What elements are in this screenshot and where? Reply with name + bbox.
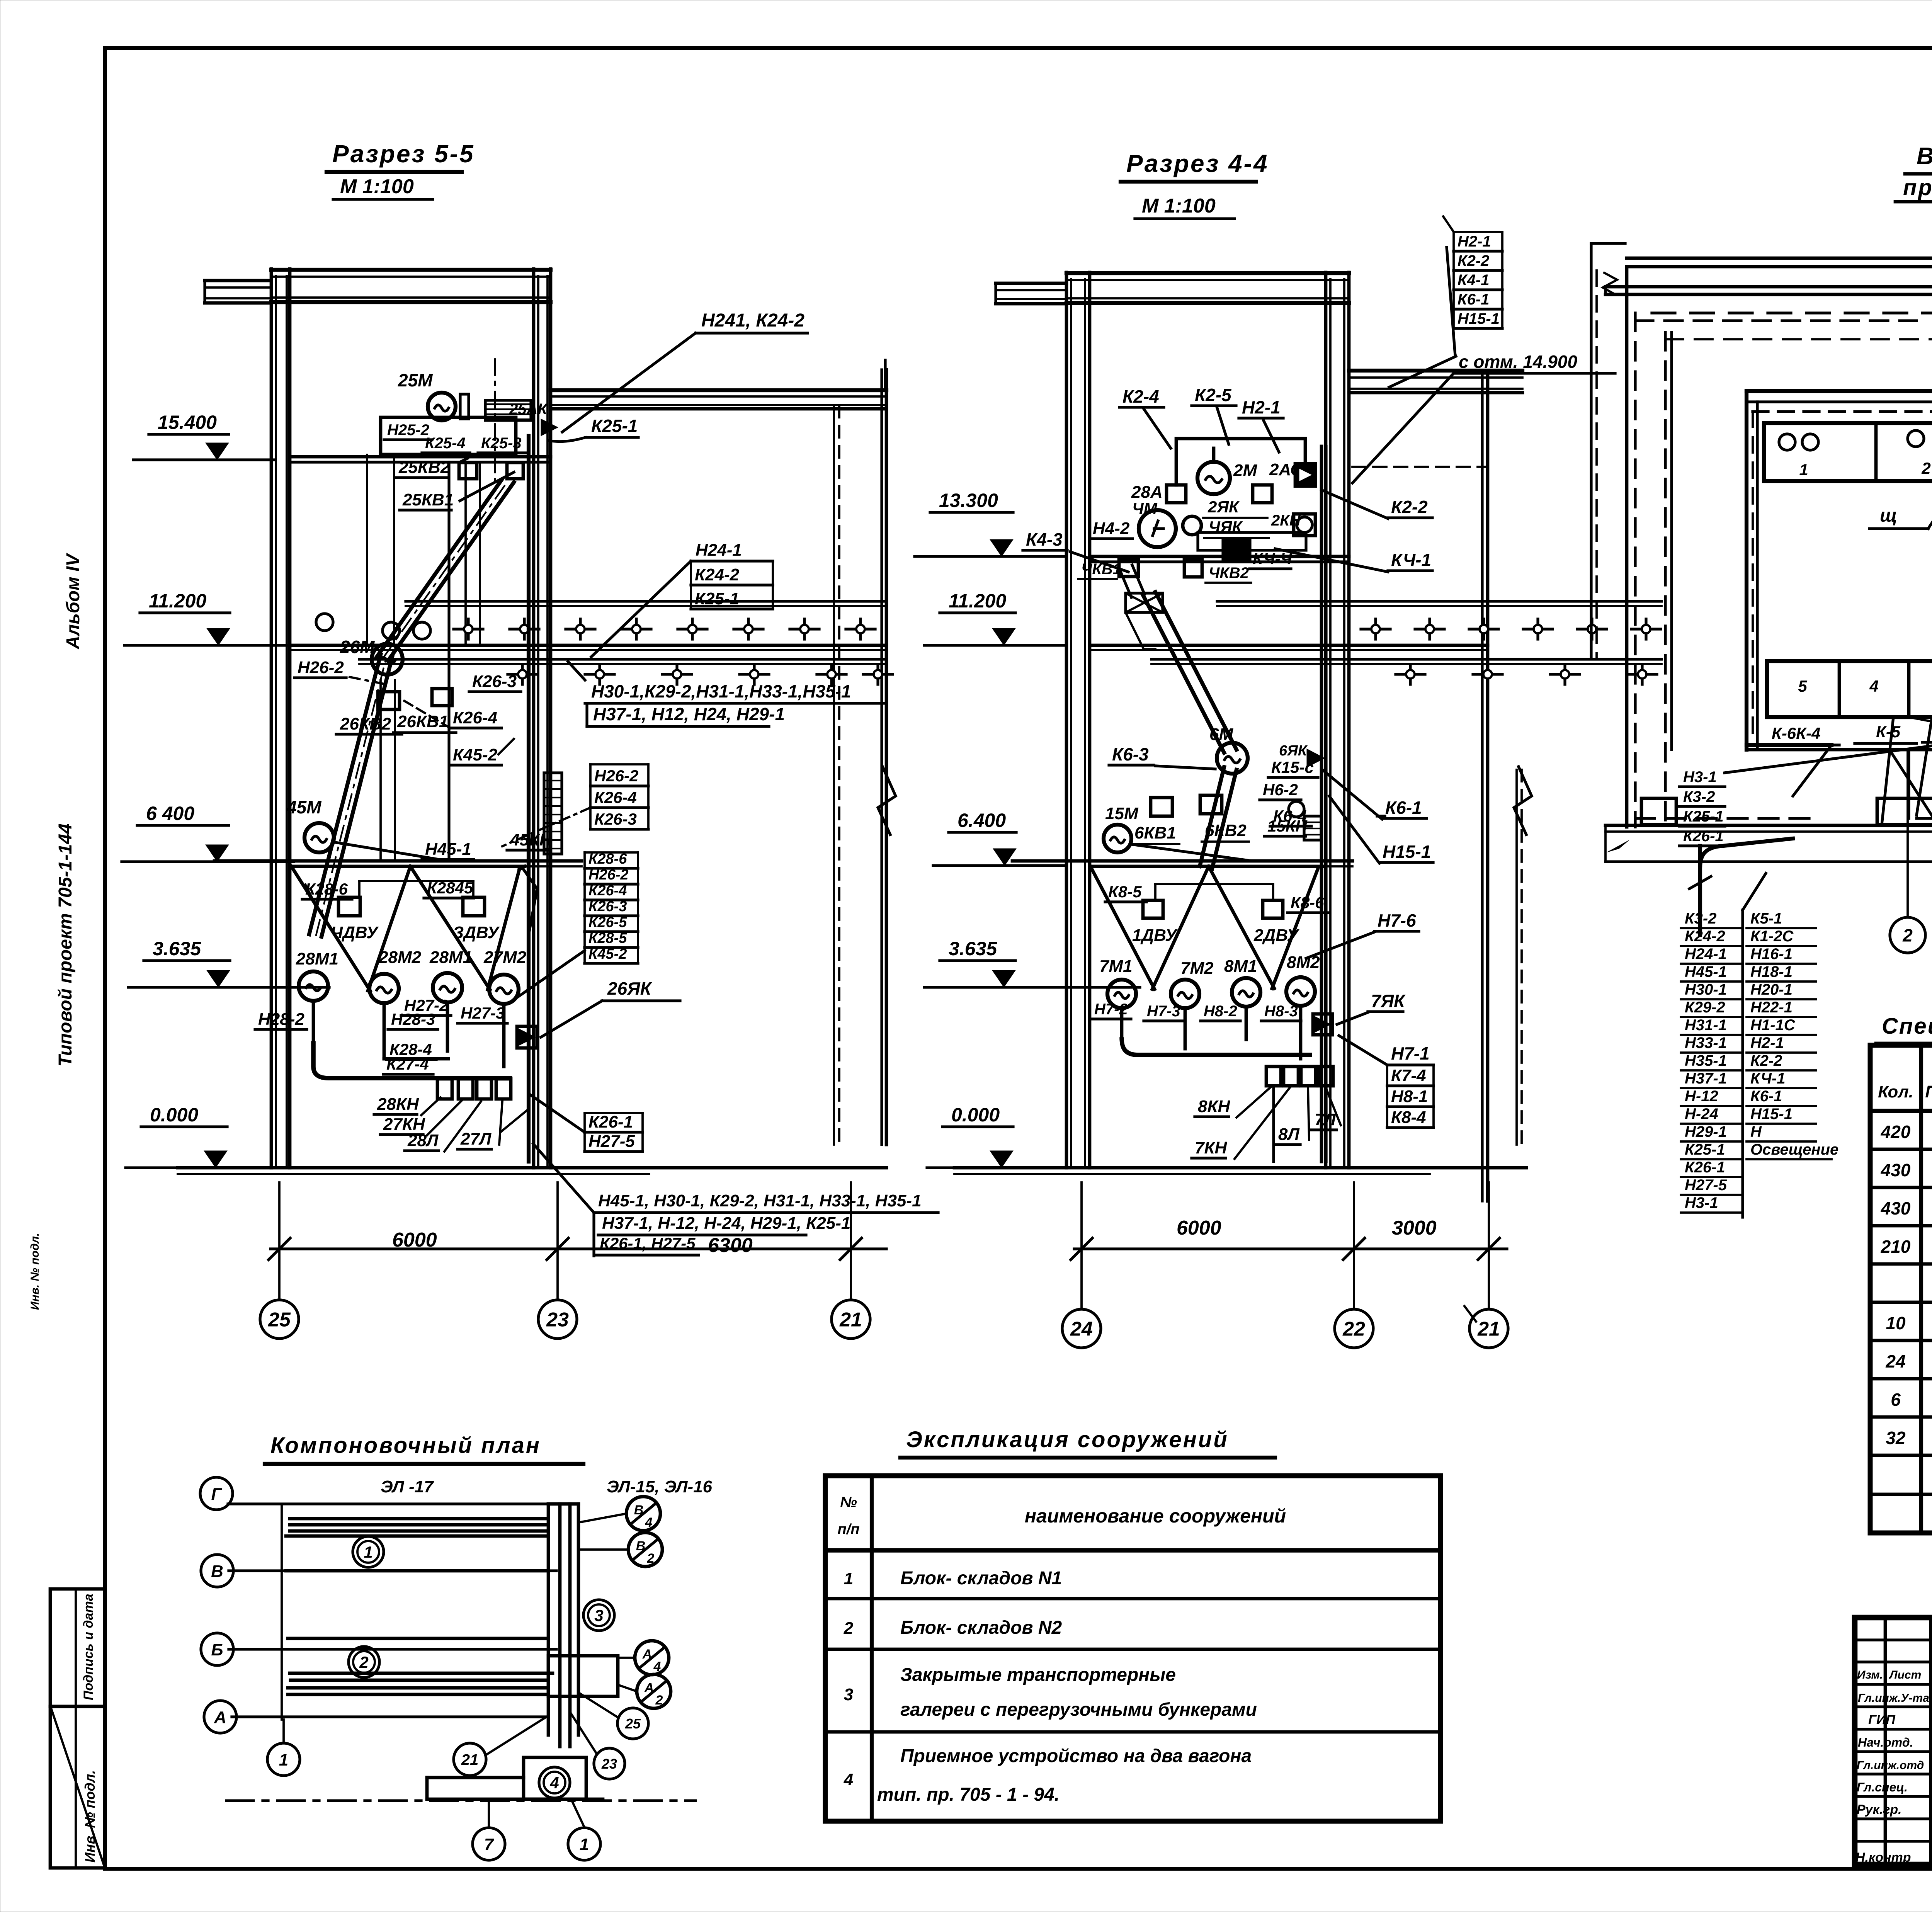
svg-text:3: 3 xyxy=(594,1606,603,1625)
label stack N26-2 etc xyxy=(590,764,648,829)
hoist axis dash line xyxy=(494,359,496,481)
svg-text:Н8-1: Н8-1 xyxy=(1391,1087,1428,1106)
top machinery 4-4 xyxy=(1197,462,1230,494)
svg-text:Н2-1: Н2-1 xyxy=(1750,1034,1784,1051)
label K8-5 xyxy=(1105,883,1146,902)
svg-text:К26-5: К26-5 xyxy=(588,914,627,930)
svg-text:1: 1 xyxy=(364,1543,372,1561)
svg-text:Н241, К24-2: Н241, К24-2 xyxy=(701,310,804,331)
dimension line section 5-5 xyxy=(269,1182,886,1300)
label K4-1 leader xyxy=(1388,550,1432,571)
svg-text:Альбом IV: Альбом IV xyxy=(63,553,83,650)
svg-text:26КВ2: 26КВ2 xyxy=(340,714,391,733)
svg-text:25КВ2: 25КВ2 xyxy=(398,458,450,477)
svg-text:1ДВУ: 1ДВУ xyxy=(1132,926,1178,945)
svg-text:щ: щ xyxy=(1880,505,1897,526)
svg-text:Н: Н xyxy=(1750,1123,1762,1140)
svg-text:2: 2 xyxy=(655,1693,663,1708)
svg-text:К2-2: К2-2 xyxy=(1391,497,1428,517)
floor 6.400 4-4 xyxy=(1012,859,1352,863)
svg-text:7ЯК: 7ЯК xyxy=(1371,991,1406,1011)
svg-text:Н27-5: Н27-5 xyxy=(588,1132,635,1151)
label K6-1 leader xyxy=(1382,798,1427,818)
svg-text:Н3-1: Н3-1 xyxy=(1683,769,1717,786)
svg-text:7М1: 7М1 xyxy=(1099,957,1133,976)
label 45KN xyxy=(507,830,552,850)
bottom receiver xyxy=(524,1757,586,1799)
label K26-4 xyxy=(450,708,502,728)
svg-text:К26-3: К26-3 xyxy=(588,898,627,915)
wall below panels xyxy=(1747,748,1932,752)
svg-text:Н37-1: Н37-1 xyxy=(1685,1070,1727,1087)
section 4-4 title xyxy=(1121,150,1269,219)
layout plan xyxy=(226,1477,713,1801)
svg-text:27Л: 27Л xyxy=(460,1130,492,1148)
svg-text:25АК: 25АК xyxy=(509,401,548,418)
motor 25M xyxy=(428,393,456,420)
section 5-5 structure xyxy=(178,269,896,1174)
label stack K24-2 K25-1 xyxy=(691,561,773,609)
svg-text:0.000: 0.000 xyxy=(951,1104,1000,1126)
svg-text:3.635: 3.635 xyxy=(949,938,997,959)
svg-text:К15-с: К15-с xyxy=(1271,758,1314,776)
support posts under machine box xyxy=(366,455,368,645)
motors 28M1 28M2 28M1 27M2 xyxy=(299,971,328,1001)
label K2-2 leader xyxy=(1388,497,1432,518)
label N7-6 leader xyxy=(1374,910,1419,931)
svg-text:галереи с перегрузочными бунк: галереи с перегрузочными бункерами xyxy=(900,1699,1257,1720)
svg-text:Б: Б xyxy=(211,1640,223,1659)
section 4-4 structure xyxy=(954,272,1662,1201)
storage block 2 lines xyxy=(288,1637,548,1640)
svg-text:ЭЛ -17: ЭЛ -17 xyxy=(381,1477,434,1496)
machinery blocks at 15.400 xyxy=(381,417,516,454)
motor 4M 13.300 xyxy=(1139,510,1176,547)
motors 7M1 7M2 8M1 8M2 xyxy=(1107,980,1136,1008)
svg-text:К6-1: К6-1 xyxy=(1458,291,1489,308)
label stack K26-1 N27-5 xyxy=(585,1112,643,1152)
svg-text:32: 32 xyxy=(1886,1428,1906,1448)
svg-text:Н2-1: Н2-1 xyxy=(1242,397,1281,417)
arrow 6YaK xyxy=(1307,749,1325,767)
svg-text:Поз.: Поз. xyxy=(1925,1082,1932,1101)
svg-text:К45-2: К45-2 xyxy=(588,946,627,962)
svg-text:Г: Г xyxy=(211,1485,222,1504)
feeder drops below bottom panel row xyxy=(1907,750,1910,818)
dashed line from roof 4-4 xyxy=(1352,466,1488,468)
motor drop wires and bus xyxy=(313,1001,510,1078)
svg-text:Разрез 5-5: Разрез 5-5 xyxy=(332,140,475,168)
svg-text:25: 25 xyxy=(268,1309,291,1331)
svg-text:15М: 15М xyxy=(1105,804,1139,823)
column axis 23 xyxy=(532,269,536,1168)
svg-text:8КН: 8КН xyxy=(1198,1097,1231,1116)
svg-text:4: 4 xyxy=(653,1659,661,1674)
svg-text:Н3-1: Н3-1 xyxy=(1685,1194,1718,1211)
svg-text:1: 1 xyxy=(279,1750,288,1769)
svg-text:В: В xyxy=(211,1562,223,1581)
svg-text:4: 4 xyxy=(549,1774,559,1792)
svg-text:Блок- складов N2: Блок- складов N2 xyxy=(900,1618,1062,1638)
svg-text:6М: 6М xyxy=(1209,725,1233,744)
svg-text:Н28-2: Н28-2 xyxy=(258,1010,304,1029)
label stack N2-1 group xyxy=(1454,232,1502,328)
column axis 24 xyxy=(1065,272,1068,1168)
svg-text:Н26-2: Н26-2 xyxy=(298,658,344,677)
incline chute 4-4 xyxy=(1143,595,1224,753)
small blocks on platform xyxy=(1877,798,1932,825)
svg-text:6.400: 6.400 xyxy=(957,810,1006,831)
svg-text:Освещение: Освещение xyxy=(1750,1141,1838,1158)
svg-text:К-5: К-5 xyxy=(1876,723,1901,741)
inclined gallery brace xyxy=(309,655,381,934)
label N15-1 xyxy=(1379,842,1433,862)
dimension line 4-4 xyxy=(1071,1182,1507,1309)
svg-text:2: 2 xyxy=(1921,459,1930,477)
right roof 4-4 xyxy=(1349,369,1522,373)
svg-text:Н25-2: Н25-2 xyxy=(387,422,429,439)
svg-text:К6-3: К6-3 xyxy=(1112,744,1149,764)
crossing box A4 A2 xyxy=(548,1656,618,1696)
dark box 13.300 xyxy=(1223,540,1250,562)
margin box Podpis i data xyxy=(50,1589,105,1706)
svg-text:М 1:100: М 1:100 xyxy=(1142,195,1216,217)
svg-text:15.400: 15.400 xyxy=(158,412,217,433)
svg-text:К26-4: К26-4 xyxy=(453,708,497,727)
svg-text:28М2: 28М2 xyxy=(378,948,422,967)
svg-text:Кол.: Кол. xyxy=(1878,1082,1913,1101)
label 27L xyxy=(457,1130,492,1149)
svg-text:45М: 45М xyxy=(286,797,322,817)
label K27-4 xyxy=(383,1055,433,1074)
svg-text:6ЯК: 6ЯК xyxy=(1279,743,1308,759)
svg-text:Компоновочный план: Компоновочный план xyxy=(270,1433,541,1458)
label N28-3 xyxy=(388,1010,438,1029)
leaders to label boxes xyxy=(1889,750,1932,912)
box 26KV2 xyxy=(378,692,400,709)
svg-text:Н15-1: Н15-1 xyxy=(1750,1106,1793,1123)
svg-text:Подпись и дата: Подпись и дата xyxy=(81,1594,96,1700)
svg-text:6 400: 6 400 xyxy=(146,803,194,824)
svg-text:21: 21 xyxy=(461,1751,479,1768)
svg-text:КЧ-1: КЧ-1 xyxy=(1750,1070,1785,1087)
elevation mark 0.000 xyxy=(126,1104,294,1168)
svg-text:Разрез 4-4: Разрез 4-4 xyxy=(1126,150,1269,177)
svg-text:Гл.инж.У-та: Гл.инж.У-та xyxy=(1858,1692,1929,1704)
label N6-2 xyxy=(1260,781,1301,800)
ground 0.000 4-4 xyxy=(954,1166,1526,1170)
hatched chute 45KN xyxy=(544,773,562,854)
svg-text:Инв. № подл.: Инв. № подл. xyxy=(82,1770,98,1863)
panel row top (1 2 3 PU1 PU) xyxy=(1764,423,1932,487)
svg-text:6КВ2: 6КВ2 xyxy=(1205,821,1247,840)
leader lines from panels down xyxy=(1793,672,1932,825)
svg-text:8Л: 8Л xyxy=(1278,1125,1299,1144)
svg-text:Н-12: Н-12 xyxy=(1685,1088,1718,1105)
svg-text:К1-2С: К1-2С xyxy=(1750,928,1794,945)
svg-text:Экспликация сооружений: Экспликация сооружений xyxy=(906,1427,1229,1452)
svg-text:430: 430 xyxy=(1881,1160,1911,1180)
svg-text:1: 1 xyxy=(844,1569,853,1588)
svg-text:4: 4 xyxy=(844,1770,853,1789)
label K6-3 xyxy=(1109,744,1153,765)
section 5-5 title xyxy=(327,140,475,199)
svg-text:Нач.отд.: Нач.отд. xyxy=(1858,1735,1913,1749)
svg-text:Н26-2: Н26-2 xyxy=(588,867,629,883)
svg-text:Н16-1: Н16-1 xyxy=(1750,946,1793,963)
svg-text:24: 24 xyxy=(1070,1318,1093,1340)
specification table xyxy=(1870,1045,1932,1533)
svg-text:28Л: 28Л xyxy=(407,1131,439,1150)
svg-text:3: 3 xyxy=(844,1685,853,1704)
svg-text:К-6К-4: К-6К-4 xyxy=(1772,724,1820,742)
svg-text:2: 2 xyxy=(1902,925,1913,946)
wiring top 4-4 xyxy=(1176,439,1305,485)
svg-text:Н26-2: Н26-2 xyxy=(594,767,638,785)
svg-text:Н45-1: Н45-1 xyxy=(425,840,471,859)
floor 15.400 xyxy=(290,455,551,459)
conveyor ties 11.200 4-4 xyxy=(1361,619,1661,684)
svg-text:Н7-1: Н7-1 xyxy=(1391,1043,1430,1063)
svg-text:Н-24: Н-24 xyxy=(1685,1106,1718,1123)
arrow 26YaK xyxy=(517,1026,537,1048)
svg-text:6000: 6000 xyxy=(1177,1217,1221,1239)
svg-text:Н15-1: Н15-1 xyxy=(1458,310,1500,327)
svg-text:К8-5: К8-5 xyxy=(1108,883,1142,901)
svg-text:А: А xyxy=(644,1681,654,1695)
title block texts xyxy=(1855,1628,1932,1868)
elevation mark 13.300 xyxy=(915,490,1066,556)
svg-text:28А: 28А xyxy=(1131,483,1163,502)
label stack N7-1 group xyxy=(1387,1065,1434,1128)
margin box Inv N podl xyxy=(50,1706,105,1868)
svg-text:7М2: 7М2 xyxy=(1180,959,1214,978)
svg-text:Н29-1: Н29-1 xyxy=(1685,1123,1727,1140)
title block xyxy=(1855,1618,1932,1864)
roof ridge slope 4-4 xyxy=(1389,356,1456,387)
label K25-4 xyxy=(422,435,470,453)
svg-text:28М1: 28М1 xyxy=(296,949,338,968)
svg-text:Изм.: Изм. xyxy=(1857,1669,1883,1681)
svg-text:10: 10 xyxy=(1886,1313,1906,1333)
floor 13.300 xyxy=(1090,555,1349,558)
svg-text:К25-4: К25-4 xyxy=(425,435,466,452)
svg-text:13.300: 13.300 xyxy=(939,490,998,511)
svg-text:26КВ1: 26КВ1 xyxy=(397,712,448,731)
label N27-2 xyxy=(401,996,451,1016)
svg-text:7: 7 xyxy=(484,1835,495,1854)
svg-text:К6-1: К6-1 xyxy=(1750,1088,1782,1105)
junction boxes 8KN 7KN 8L 7L xyxy=(1266,1067,1281,1086)
label 7YaK xyxy=(1368,991,1406,1012)
svg-text:К5-1: К5-1 xyxy=(1750,910,1782,927)
svg-text:8М1: 8М1 xyxy=(1224,957,1257,976)
svg-text:Н24-1: Н24-1 xyxy=(696,541,742,560)
svg-text:К29-2: К29-2 xyxy=(1685,999,1725,1016)
svg-text:Инв. № подл.: Инв. № подл. xyxy=(29,1233,41,1310)
floor 6.400 slab xyxy=(214,859,582,863)
label K28-6 xyxy=(302,880,352,899)
svg-text:К24-2: К24-2 xyxy=(1685,928,1725,945)
axis bubble 22 xyxy=(1335,1309,1373,1348)
label K2845 xyxy=(424,879,474,898)
conveyor top chord 4-4 xyxy=(1217,600,1662,602)
svg-text:Н.контр: Н.контр xyxy=(1855,1850,1911,1865)
svg-text:6000: 6000 xyxy=(392,1229,437,1251)
svg-text:№: № xyxy=(840,1494,857,1511)
svg-text:К2-2: К2-2 xyxy=(1750,1052,1782,1069)
two column stack bottom left of plan xyxy=(1681,873,1838,1217)
svg-text:4: 4 xyxy=(645,1515,653,1530)
rail break mark xyxy=(1603,273,1617,294)
dash-dot rail line xyxy=(226,1799,696,1802)
ground line 0.000 xyxy=(178,1166,886,1170)
box 25KV2 xyxy=(459,463,477,479)
box 25KV1 xyxy=(507,463,523,479)
storage block 1 lines xyxy=(290,1517,548,1521)
conveyor top chord 5-5 xyxy=(406,600,886,602)
box 26KV1 xyxy=(432,689,452,706)
svg-text:тип. пр. 705 - 1 - 94.: тип. пр. 705 - 1 - 94. xyxy=(877,1784,1060,1805)
arrow 7YaK xyxy=(1313,1014,1332,1035)
label 28KN xyxy=(374,1095,419,1114)
hoppers 4-4 xyxy=(1090,866,1323,989)
svg-text:Н33-1: Н33-1 xyxy=(1685,1034,1727,1051)
boxes 4KV1 4KV2 xyxy=(1119,560,1138,577)
svg-text:Н35-1: Н35-1 xyxy=(1685,1052,1727,1069)
svg-text:Гл.инж.отд: Гл.инж.отд xyxy=(1857,1759,1924,1772)
svg-text:К45-2: К45-2 xyxy=(453,745,498,764)
svg-text:В: В xyxy=(636,1539,646,1553)
label N15-1 leader xyxy=(1377,815,1385,817)
svg-text:Н1-1С: Н1-1С xyxy=(1750,1017,1796,1034)
svg-text:11.200: 11.200 xyxy=(149,590,206,612)
svg-text:К8-6: К8-6 xyxy=(1291,893,1324,912)
svg-text:Выкопировка из плана: Выкопировка из плана xyxy=(1917,143,1932,170)
break mark 4-4 xyxy=(1514,767,1532,835)
left cantilever 4-4 xyxy=(996,282,1066,285)
bus 4-4 xyxy=(1122,1006,1310,1059)
riser cable 4-4 xyxy=(1320,446,1323,1162)
labels N7-2 N7-3 N8-2 N8-3 xyxy=(1091,1001,1131,1019)
svg-text:А: А xyxy=(214,1708,226,1727)
svg-text:Блок- складов N1: Блок- складов N1 xyxy=(900,1568,1062,1589)
svg-text:К26-1: К26-1 xyxy=(588,1112,633,1131)
svg-text:ЧДВУ: ЧДВУ xyxy=(331,923,379,942)
svg-text:К26-3: К26-3 xyxy=(594,810,637,828)
label K45-2 xyxy=(450,745,502,765)
svg-text:К26-4: К26-4 xyxy=(594,788,637,806)
svg-text:ЧКВ2: ЧКВ2 xyxy=(1209,565,1249,582)
explication table xyxy=(825,1476,1440,1821)
svg-text:Н30-1,К29-2,Н31-1,Н33-1,Н35-1: Н30-1,К29-2,Н31-1,Н33-1,Н35-1 xyxy=(591,681,851,701)
svg-text:К2-5: К2-5 xyxy=(1195,385,1232,405)
svg-text:Н8-3: Н8-3 xyxy=(1264,1003,1298,1020)
svg-text:К25-1: К25-1 xyxy=(1685,1141,1725,1158)
motor 6M xyxy=(1217,743,1248,774)
svg-text:4: 4 xyxy=(1869,677,1878,695)
elevation mark 6.400 xyxy=(933,810,1066,866)
svg-text:К3-2: К3-2 xyxy=(1683,788,1715,805)
label 28L xyxy=(405,1131,439,1151)
svg-text:М 1:100: М 1:100 xyxy=(340,175,414,198)
svg-text:Рук.гр.: Рук.гр. xyxy=(1857,1802,1902,1817)
riser cable xyxy=(527,436,531,1162)
svg-text:К25-1: К25-1 xyxy=(591,416,638,436)
embankment edge between 4-4 and plan xyxy=(1590,243,1592,657)
svg-text:25КВ1: 25КВ1 xyxy=(402,490,454,509)
svg-text:А: А xyxy=(642,1647,652,1662)
label K6-4 xyxy=(1270,807,1311,826)
label stack NZ group xyxy=(1679,769,1725,846)
conveyor cross ties 11.200 section 5-5 xyxy=(454,619,893,684)
svg-text:Н6-2: Н6-2 xyxy=(1263,781,1298,799)
svg-text:8М2: 8М2 xyxy=(1287,953,1320,972)
svg-text:7Л: 7Л xyxy=(1315,1110,1336,1129)
svg-text:Лист: Лист xyxy=(1889,1669,1921,1681)
motor 15M xyxy=(1104,825,1131,852)
label K4-4 xyxy=(1250,549,1293,569)
svg-text:7КН: 7КН xyxy=(1195,1138,1228,1157)
svg-text:К2-4: К2-4 xyxy=(1122,386,1159,407)
svg-text:15КН: 15КН xyxy=(1267,817,1308,835)
junction boxes 28KN 27KN 28L 27L xyxy=(437,1079,452,1099)
svg-text:6300: 6300 xyxy=(708,1234,753,1257)
svg-text:0.000: 0.000 xyxy=(150,1104,198,1126)
svg-text:Н27-3: Н27-3 xyxy=(461,1004,505,1022)
hatched chute 15KN xyxy=(1304,816,1321,840)
label K26-3 xyxy=(469,672,521,692)
label stack K28-6 group xyxy=(585,851,638,963)
svg-text:6: 6 xyxy=(1891,1390,1901,1410)
svg-text:1: 1 xyxy=(580,1835,589,1854)
svg-text:К3-2: К3-2 xyxy=(1685,910,1716,927)
left wall plan xyxy=(1627,267,1932,827)
hatched box 25AK xyxy=(485,400,531,420)
svg-text:28М1: 28М1 xyxy=(429,948,472,967)
label 15KN xyxy=(1264,817,1308,836)
hoppers section 5-5 xyxy=(291,866,537,991)
svg-text:Закрытые транспортерные: Закрытые транспортерные xyxy=(900,1665,1176,1685)
svg-text:26М: 26М xyxy=(340,637,375,657)
break mark right xyxy=(878,767,896,835)
arrow box 25 xyxy=(541,419,558,436)
top roof beam xyxy=(271,268,551,272)
svg-text:Н30-1: Н30-1 xyxy=(1685,981,1727,998)
svg-text:К4-1: К4-1 xyxy=(1458,272,1489,289)
vibrator 1DVU xyxy=(1143,900,1163,918)
column axis 22 xyxy=(1324,272,1328,1168)
svg-text:2ДВУ: 2ДВУ xyxy=(1253,926,1299,945)
svg-text:К7-4: К7-4 xyxy=(1391,1066,1426,1085)
svg-text:приемного устройства: приемного устройства xyxy=(1903,175,1932,200)
svg-text:Н37-1, Н12, Н24, Н29-1: Н37-1, Н12, Н24, Н29-1 xyxy=(593,704,785,724)
svg-text:25: 25 xyxy=(625,1716,641,1732)
svg-text:ЧКВ1: ЧКВ1 xyxy=(1081,561,1121,578)
svg-text:с отм. 14.900: с отм. 14.900 xyxy=(1459,352,1577,372)
svg-text:Типовой проект 705-1-144: Типовой проект 705-1-144 xyxy=(55,823,76,1067)
svg-text:ЗДВУ: ЗДВУ xyxy=(453,923,500,942)
labels N4-2 K4-3 xyxy=(1090,519,1133,539)
axis bubble 24 xyxy=(1062,1309,1101,1348)
operator room walls xyxy=(1747,391,1932,750)
svg-text:22: 22 xyxy=(1342,1318,1365,1340)
elevation mark 3.635 xyxy=(924,938,1140,987)
svg-text:Н2-1: Н2-1 xyxy=(1458,233,1491,250)
label N26-2 xyxy=(294,658,346,678)
svg-text:К28-5: К28-5 xyxy=(588,930,627,946)
svg-text:2ЯК: 2ЯК xyxy=(1207,498,1240,516)
